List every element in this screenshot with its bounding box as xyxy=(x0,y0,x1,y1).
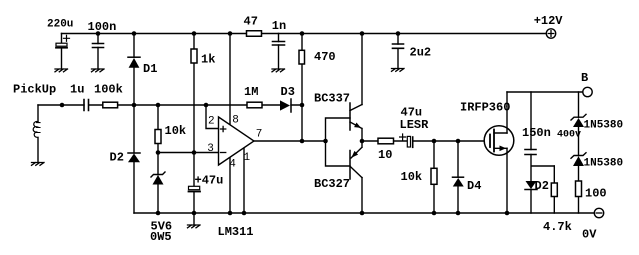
svg-text:D2: D2 xyxy=(110,151,124,165)
svg-text:BC337: BC337 xyxy=(314,92,350,106)
svg-text:100k: 100k xyxy=(94,83,123,97)
svg-text:47: 47 xyxy=(244,15,258,29)
svg-text:100n: 100n xyxy=(88,20,117,34)
svg-text:1: 1 xyxy=(244,152,251,164)
svg-text:D1: D1 xyxy=(143,62,157,76)
svg-text:B: B xyxy=(581,71,588,85)
svg-text:1M: 1M xyxy=(244,85,258,99)
svg-text:470: 470 xyxy=(314,50,336,64)
svg-text:4: 4 xyxy=(229,159,236,171)
svg-text:D2: D2 xyxy=(535,179,549,193)
svg-text:LM311: LM311 xyxy=(218,225,254,239)
svg-text:10: 10 xyxy=(378,148,392,162)
svg-text:+12V: +12V xyxy=(534,14,564,28)
svg-text:0V: 0V xyxy=(582,228,597,242)
svg-text:4.7k: 4.7k xyxy=(543,220,572,234)
svg-text:400v: 400v xyxy=(557,130,581,141)
svg-text:2: 2 xyxy=(208,116,215,128)
svg-text:100: 100 xyxy=(585,187,607,201)
svg-text:BC327: BC327 xyxy=(314,177,350,191)
svg-text:3: 3 xyxy=(207,143,214,155)
svg-text:10k: 10k xyxy=(165,124,187,138)
svg-text:1N5380: 1N5380 xyxy=(584,120,624,132)
svg-text:0W5: 0W5 xyxy=(150,230,172,244)
svg-text:PickUp: PickUp xyxy=(13,83,56,97)
svg-text:+47u: +47u xyxy=(195,174,224,188)
svg-text:D4: D4 xyxy=(467,179,481,193)
svg-text:D3: D3 xyxy=(281,85,295,99)
svg-text:8: 8 xyxy=(232,115,239,127)
svg-text:IRFP360: IRFP360 xyxy=(460,101,510,115)
svg-text:1u: 1u xyxy=(70,83,84,97)
svg-text:220u: 220u xyxy=(47,19,73,31)
svg-text:1n: 1n xyxy=(272,19,286,33)
svg-text:150n: 150n xyxy=(522,126,551,140)
svg-text:10k: 10k xyxy=(401,170,423,184)
svg-text:2u2: 2u2 xyxy=(410,46,432,60)
svg-text:LESR: LESR xyxy=(400,118,430,132)
svg-text:1k: 1k xyxy=(201,53,215,67)
svg-text:7: 7 xyxy=(256,129,263,141)
svg-text:1N5380: 1N5380 xyxy=(584,158,624,170)
